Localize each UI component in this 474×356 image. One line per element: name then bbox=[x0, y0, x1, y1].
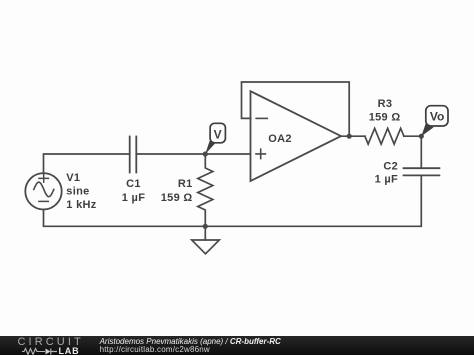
voltage source V1 bbox=[25, 173, 61, 209]
CircuitLab logo bbox=[18, 338, 84, 347]
svg-text:C1: C1 bbox=[126, 178, 141, 190]
label C1 value bbox=[122, 178, 145, 204]
svg-text:159 Ω: 159 Ω bbox=[369, 111, 401, 123]
node V junction dot bbox=[203, 151, 208, 156]
wire top rail (V1 top to C1 left plate) bbox=[44, 154, 130, 173]
svg-text:V1: V1 bbox=[66, 172, 80, 184]
svg-text:V: V bbox=[214, 128, 222, 142]
svg-text:OA2: OA2 bbox=[268, 133, 292, 145]
footer text bbox=[100, 338, 281, 354]
svg-text:C2: C2 bbox=[383, 161, 398, 173]
label R1 value bbox=[161, 178, 193, 204]
label R3 value bbox=[369, 98, 401, 123]
label V1 value bbox=[66, 172, 96, 211]
label C2 value bbox=[375, 161, 398, 186]
wire op-amp output bbox=[341, 135, 365, 137]
capacitor C2 bbox=[404, 136, 440, 175]
probe V bbox=[205, 123, 225, 154]
ground bbox=[192, 226, 220, 254]
node ground junction dot bbox=[203, 224, 208, 229]
wire feedback loop (output to inverting input) bbox=[242, 82, 350, 136]
svg-text:1 µF: 1 µF bbox=[122, 192, 145, 204]
svg-text:R1: R1 bbox=[178, 178, 193, 190]
capacitor C1 bbox=[130, 137, 137, 173]
svg-text:159 Ω: 159 Ω bbox=[161, 192, 193, 204]
op-amp U1 OA2 bbox=[251, 91, 342, 181]
op-amp plus sign bbox=[256, 149, 265, 158]
node output junction dot bbox=[347, 134, 352, 139]
resistor R3 bbox=[365, 128, 404, 144]
wire C1 to op-amp + input (through node V) bbox=[136, 153, 250, 155]
svg-text:sine: sine bbox=[66, 186, 89, 198]
probe Vo bbox=[421, 106, 448, 137]
svg-text:1 kHz: 1 kHz bbox=[66, 199, 96, 211]
footer bar bbox=[0, 336, 474, 355]
resistor R1 bbox=[198, 154, 213, 226]
wire bottom rail bbox=[44, 175, 422, 226]
wire R3 to node Vo bbox=[404, 135, 421, 137]
svg-text:R3: R3 bbox=[378, 98, 393, 110]
node Vo junction dot bbox=[419, 134, 424, 139]
op-amp minus sign bbox=[256, 117, 267, 119]
svg-text:Vo: Vo bbox=[430, 109, 444, 123]
svg-text:1 µF: 1 µF bbox=[375, 174, 398, 186]
